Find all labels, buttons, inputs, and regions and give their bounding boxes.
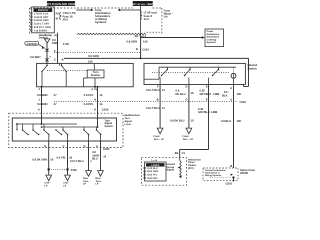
svg-text:Cntr–: Cntr– <box>45 182 52 185</box>
ground distribution note <box>205 169 233 177</box>
svg-text:C: C <box>54 59 56 62</box>
wire 0.8 DK BLU 15 (hazard D) <box>188 85 190 128</box>
wire 0.8 WHT 7 label <box>30 56 51 59</box>
pin J <box>38 88 40 91</box>
fuse block (dashed outline) <box>30 8 162 34</box>
wire 0.8 LT BLU 16 <box>88 141 90 170</box>
svg-text:B6: B6 <box>175 152 179 155</box>
svg-text:0.8 DK GRN: 0.8 DK GRN <box>32 159 47 162</box>
pin A at C259 <box>38 109 40 112</box>
headlamp switch label <box>39 34 58 39</box>
svg-text:0.8 BRN: 0.8 BRN <box>37 103 48 106</box>
svg-text:16: 16 <box>99 103 103 106</box>
svg-text:in Wiring: in Wiring <box>207 38 217 41</box>
label 0.8 DK BLU 15 upper <box>176 90 195 96</box>
pin C lower / pin B <box>54 59 64 62</box>
svg-text:Distribution: Distribution <box>207 33 220 36</box>
console callout <box>25 41 45 48</box>
wire 0.8 DK GRN 19 <box>48 141 50 169</box>
switch contact group 1 <box>22 124 29 135</box>
svg-text:16: 16 <box>99 94 103 97</box>
switch contact group 5 <box>62 127 68 135</box>
svg-text:0.8 LT BLU: 0.8 LT BLU <box>70 160 84 163</box>
pin B6 connector C1 <box>175 152 186 155</box>
svg-text:Systems: Systems <box>95 21 107 24</box>
svg-text:C259: C259 <box>103 148 110 151</box>
svg-text:H: H <box>94 98 96 101</box>
svg-text:P5: P5 <box>56 12 60 15</box>
svg-text:0.8 BLK: 0.8 BLK <box>221 120 231 123</box>
label 0.8 LT BLU 16 <box>70 160 92 163</box>
wire 0.8 ORN 140 horizontal <box>64 57 249 59</box>
svg-text:Rear: Rear <box>96 177 101 180</box>
hazard contact 2 <box>184 67 191 84</box>
splice pack dashed box <box>203 168 238 180</box>
svg-text:Turn – LP: Turn – LP <box>183 138 194 141</box>
svg-text:Front: Front <box>154 135 160 138</box>
svg-text:27: 27 <box>54 94 58 97</box>
svg-text:Systems: Systems <box>207 41 217 44</box>
svg-text:Rear: Rear <box>83 177 88 180</box>
svg-text:A: A <box>230 87 232 90</box>
wire 0.8 BLK 150 <box>233 85 235 169</box>
svg-text:A: A <box>230 99 232 102</box>
fuse F1 brace <box>60 12 61 20</box>
svg-text:B: B <box>62 59 64 62</box>
svg-text:145B: 145B <box>213 93 219 96</box>
turn signal switch label <box>105 119 114 128</box>
svg-text:0.8 LT BLU: 0.8 LT BLU <box>146 107 160 110</box>
wire 0.8 LT BLU 14 (hazard F) <box>159 85 161 128</box>
junction block internal drop 1 <box>41 75 43 87</box>
label 0.35 GRY/BLK lower <box>198 108 217 114</box>
svg-text:UA: UA <box>164 15 168 18</box>
pin G wire1 <box>44 145 46 148</box>
wire right loop bottom <box>244 85 249 87</box>
power feed header HOT AT ALL TIMES <box>132 1 155 5</box>
switch bus upper <box>16 123 77 130</box>
flasher pin wire bottom left <box>84 78 88 87</box>
connector triangle at headlamp switch <box>45 39 50 43</box>
junction block internal drop 2 <box>65 75 67 87</box>
svg-text:150: 150 <box>237 93 242 96</box>
switch contact group 7 <box>96 127 102 135</box>
IPC table <box>144 162 166 181</box>
svg-text:B2: B2 <box>135 35 139 38</box>
svg-text:Turn–: Turn– <box>83 180 90 183</box>
wire below splice S1 <box>48 171 50 175</box>
pin G wire3 <box>83 145 85 148</box>
hazard contact 3 <box>209 67 220 84</box>
fuse F2 brace <box>141 12 142 20</box>
flasher pin wire top <box>93 63 95 70</box>
label 0.8 BRN 27 lower <box>37 103 57 106</box>
svg-text:E: E <box>206 85 208 88</box>
wire 0.8 PPL 16 (upper) <box>97 86 99 113</box>
svg-text:Turn–: Turn– <box>96 180 103 183</box>
pin C upper <box>54 50 56 53</box>
label 0.8 BLK 150 lower <box>221 120 241 123</box>
resistor in IPC <box>179 158 181 178</box>
wire from triangle to junction block <box>46 43 48 64</box>
turn signal switch box <box>12 118 116 141</box>
svg-text:0.8 PPL: 0.8 PPL <box>84 103 94 106</box>
hazard internal feed wire <box>144 67 236 79</box>
svg-text:Console: Console <box>27 42 38 45</box>
power distribution reference box <box>205 29 224 47</box>
fuse F2 label <box>144 12 157 21</box>
svg-text:7x8 B BRN: 7x8 B BRN <box>34 29 47 32</box>
svg-text:C259: C259 <box>102 109 109 112</box>
pin F wire4 <box>96 145 98 148</box>
svg-text:G201: G201 <box>226 182 233 185</box>
label 0.8 LT BLU 14 upper <box>146 89 165 92</box>
label 0.8 PPL 16 upper <box>84 94 103 97</box>
pin B at connector <box>157 99 159 102</box>
svg-text:B: B <box>230 165 232 168</box>
fuse distribution reference text <box>95 9 111 24</box>
wire 0.8 BRN 27 (upper) <box>41 86 43 113</box>
wire 0.8 YEL 18 <box>67 141 69 169</box>
wire reference right <box>118 9 141 11</box>
switch contact group 2 <box>32 124 39 135</box>
wire 0.8 OR BLU 15 <box>100 141 102 170</box>
svg-text:10 A: 10 A <box>144 18 150 21</box>
junction block outline <box>37 63 134 86</box>
connector boundary (dotted) across page <box>54 101 238 103</box>
svg-text:C1: C1 <box>182 152 186 155</box>
svg-text:Wiring Systems: Wiring Systems <box>205 174 222 177</box>
svg-text:HOT IN RUN AND START: HOT IN RUN AND START <box>45 3 76 6</box>
svg-text:PNK: PNK <box>52 42 58 45</box>
multifunction lever dashed box <box>9 113 123 147</box>
svg-text:E: E <box>206 99 208 102</box>
svg-text:C210: C210 <box>142 49 149 52</box>
pin B2 / connector C1 <box>135 35 147 38</box>
svg-text:HOT AT ALL TIMES: HOT AT ALL TIMES <box>132 3 155 6</box>
splice pack label <box>240 169 256 175</box>
pin A hazard <box>230 87 232 90</box>
pin F E under flasher <box>92 88 99 91</box>
pin C wire2 <box>63 145 65 148</box>
svg-text:0.8 ORN: 0.8 ORN <box>88 55 99 58</box>
label 0.8 YEL 18 <box>57 156 73 159</box>
svg-text:D: D <box>94 109 96 112</box>
contact S2 in junction block <box>60 63 67 74</box>
svg-text:B: B <box>136 48 138 51</box>
svg-text:27: 27 <box>54 103 58 106</box>
svg-text:C203: C203 <box>240 101 247 104</box>
hazard switch box <box>144 63 245 84</box>
svg-text:0.8 DK BLU: 0.8 DK BLU <box>170 120 184 123</box>
svg-text:Flasher: Flasher <box>91 74 100 77</box>
svg-text:0.8 PPL: 0.8 PPL <box>84 94 94 97</box>
svg-text:C: C <box>63 145 65 148</box>
crossing mark X2 <box>45 58 48 61</box>
wire right loop down <box>248 58 250 86</box>
svg-text:BLK: BLK <box>222 94 228 97</box>
switch contact group 6 <box>83 127 89 135</box>
hazard inner wire right <box>234 80 244 82</box>
svg-text:A: A <box>38 109 40 112</box>
svg-text:145B: 145B <box>211 111 217 114</box>
pin F hazard <box>157 85 159 88</box>
svg-text:140: 140 <box>143 40 148 43</box>
svg-text:Schematics in: Schematics in <box>205 172 220 175</box>
wire L2 into switch <box>97 113 99 127</box>
svg-text:0.8 ORN: 0.8 ORN <box>126 40 137 43</box>
svg-text:Ground Distribution: Ground Distribution <box>205 169 226 172</box>
svg-text:GRY/BLK: GRY/BLK <box>200 93 212 96</box>
IPC table tag <box>152 159 158 162</box>
svg-text:D: D <box>185 99 187 102</box>
svg-text:SP205: SP205 <box>240 172 248 175</box>
crossing mark X1 <box>45 49 48 52</box>
label 0.8 BLK 150 upper <box>222 91 241 97</box>
svg-text:1739: 1739 <box>63 43 70 46</box>
off-page arrow rear turn left <box>83 170 91 186</box>
pin H left <box>38 98 40 101</box>
svg-text:0.8 LT BLU: 0.8 LT BLU <box>146 89 160 92</box>
svg-text:0.8 YEL: 0.8 YEL <box>57 156 67 159</box>
switch bus lower <box>41 126 99 128</box>
svg-text:25 A: 25 A <box>63 19 69 22</box>
turn flasher box <box>87 70 104 78</box>
hazard signal note <box>167 163 181 172</box>
svg-text:D: D <box>185 85 187 88</box>
label 0.8 DK BLU 15 lower <box>170 120 194 123</box>
wire 0.8 PNK 1739 label <box>52 39 69 46</box>
wire 0.35 GRY/BLK 145B <box>180 85 209 158</box>
label 0.8 OR BLU 15 <box>92 151 106 160</box>
svg-text:LP: LP <box>96 183 99 186</box>
splice pack exit stub <box>233 178 235 182</box>
svg-text:150: 150 <box>237 120 242 123</box>
splice dotted link <box>49 169 67 171</box>
hazard indicator lamp <box>231 73 236 78</box>
label 0.8 PPL 16 lower <box>84 103 103 106</box>
connector boundary C210 (dotted) <box>54 52 141 54</box>
svg-text:Cntr–: Cntr– <box>63 182 70 185</box>
wire branch to power distribution <box>141 36 205 39</box>
off-page arrow front turn left <box>154 128 165 141</box>
wire reference left <box>76 9 93 11</box>
splice S2 F300 <box>66 168 77 172</box>
label 0.35 GRY/BLK upper <box>200 90 220 96</box>
svg-text:Front: Front <box>183 135 189 138</box>
label 0.8 DK GRN 19 <box>32 159 53 162</box>
svg-text:B: B <box>157 99 159 102</box>
splice dot SP205 <box>210 176 235 178</box>
hazard switch label <box>248 63 258 70</box>
junction to power distribution <box>140 37 141 38</box>
svg-text:F300: F300 <box>71 169 78 172</box>
power feed header HOT IN RUN <box>45 1 76 5</box>
off-page arrow chassis right <box>63 175 70 188</box>
label 0.8 BRN 27 upper <box>37 94 57 97</box>
wire label 0.8 ORN over line <box>88 55 99 63</box>
svg-text:G: G <box>44 145 46 148</box>
pin D at connector <box>185 99 187 102</box>
pin D hazard <box>185 85 187 88</box>
svg-text:11x8 GRY: 11x8 GRY <box>147 177 159 180</box>
lamp ground wire in box <box>233 78 235 84</box>
fuse F1 label <box>63 12 76 21</box>
connector C259 lower <box>103 148 110 151</box>
connector C210 pin B <box>136 48 150 52</box>
svg-text:Power: Power <box>207 30 214 33</box>
headlamp switch feed wire <box>57 33 59 64</box>
junction dot at fuse wire <box>140 58 142 60</box>
svg-text:C: C <box>54 50 56 53</box>
pin A at connector C203 <box>230 99 246 104</box>
svg-text:BLU: BLU <box>92 158 98 161</box>
label 0.8 LT BLU 14 lower <box>146 107 165 110</box>
IPC label <box>188 158 201 169</box>
switch contact group 3 <box>43 124 49 135</box>
splice S1 <box>48 168 50 170</box>
wire L1 into switch <box>41 113 43 124</box>
svg-text:0.8 BRN: 0.8 BRN <box>37 94 48 97</box>
svg-text:Switch: Switch <box>105 125 114 128</box>
pin E at connector <box>206 99 208 102</box>
svg-text:Turn – LP: Turn – LP <box>154 138 165 141</box>
instrument panel cluster dashed box <box>142 158 187 186</box>
svg-text:0.8 WHT: 0.8 WHT <box>30 56 41 59</box>
off-page arrow rear turn right <box>96 170 104 186</box>
pin H <box>94 98 96 101</box>
hazard contact 1 <box>160 67 168 84</box>
switch drop wires <box>49 135 101 142</box>
pin D connector C259 <box>94 109 109 112</box>
svg-text:Schematics: Schematics <box>207 36 220 39</box>
fuse block sawtooth bottom edge <box>77 32 162 35</box>
wire label 0.8 ORN 140 (upper) <box>126 40 148 43</box>
wire below splice S2 <box>67 171 69 175</box>
mechanical linkage (dotted) <box>47 70 87 72</box>
headlamp switch position table <box>31 7 55 33</box>
svg-text:Lever: Lever <box>125 123 132 126</box>
switch contact group 4 <box>55 127 62 135</box>
svg-text:LP: LP <box>63 184 66 187</box>
svg-text:(IPC): (IPC) <box>188 167 194 170</box>
pin B at splice pack <box>230 165 232 168</box>
svg-text:DK BLU: DK BLU <box>176 93 186 96</box>
pin P5 / pin M <box>56 12 60 20</box>
svg-text:LP: LP <box>83 183 86 186</box>
fuse block name <box>164 9 174 18</box>
off-page arrow chassis left <box>45 175 52 188</box>
svg-text:G: G <box>83 145 85 148</box>
svg-text:Signal: Signal <box>167 169 175 172</box>
svg-text:GRY/BLK: GRY/BLK <box>198 111 210 114</box>
ground G201 <box>226 182 233 185</box>
wire 0.8 ORN 140 vertical from fuse <box>140 34 142 59</box>
lamp linkage dashed <box>233 67 235 72</box>
off-page arrow front turn right <box>183 128 194 141</box>
pin F <box>94 88 96 91</box>
contact S1 in junction block <box>41 63 47 74</box>
wire from header 2 to fuse F2 <box>140 6 142 34</box>
pin E hazard <box>206 85 208 88</box>
svg-text:LP: LP <box>45 184 48 187</box>
multifunction lever label <box>125 114 141 126</box>
hazard mechanical linkage (dotted) <box>152 72 230 74</box>
flasher pin wire bottom right <box>94 78 96 88</box>
svg-text:Switch: Switch <box>248 66 257 70</box>
svg-text:L–xx: L–xx <box>152 159 158 162</box>
